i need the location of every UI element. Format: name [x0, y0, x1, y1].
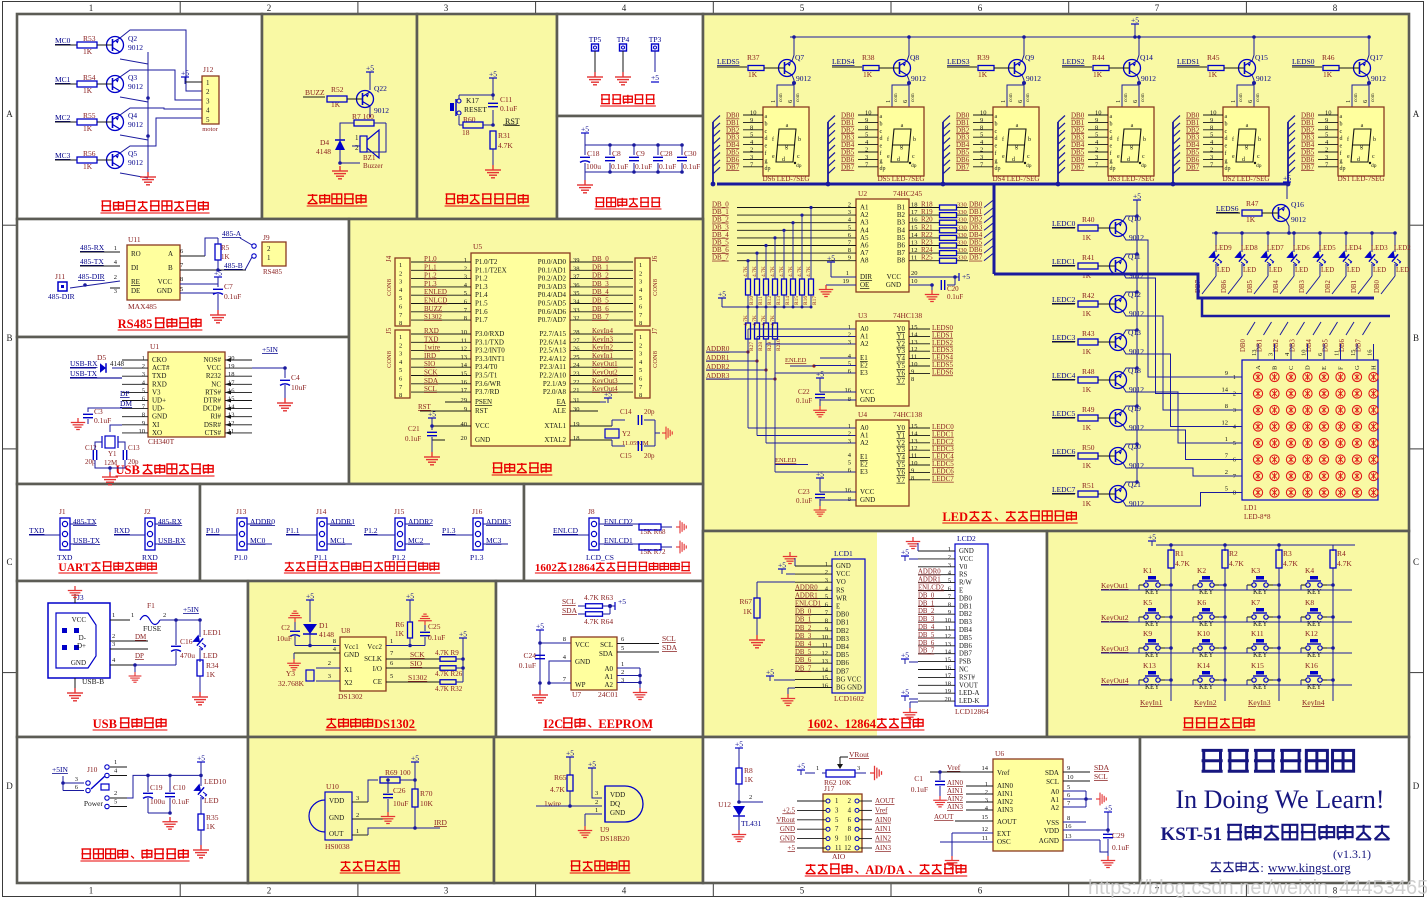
svg-text:9: 9 — [865, 117, 868, 124]
svg-text:20p: 20p — [644, 452, 655, 460]
svg-text:9: 9 — [464, 406, 467, 413]
svg-text:Vref: Vref — [875, 806, 888, 814]
svg-text:KEY: KEY — [1145, 620, 1159, 628]
svg-text:P1.0: P1.0 — [206, 526, 220, 535]
svg-text:R31: R31 — [498, 131, 511, 140]
svg-text:P1.1: P1.1 — [424, 263, 437, 271]
svg-text:DB2: DB2 — [959, 611, 972, 618]
svg-text:CTS#: CTS# — [205, 429, 222, 437]
svg-text:1K: 1K — [1082, 233, 1092, 242]
svg-text:USB: USB — [93, 717, 117, 731]
svg-text:KEY: KEY — [1199, 588, 1213, 596]
svg-text:S1302: S1302 — [408, 673, 427, 682]
svg-text:J13: J13 — [236, 507, 247, 516]
svg-text:3: 3 — [639, 351, 642, 358]
svg-text:R51: R51 — [1082, 481, 1095, 490]
svg-text:P1.0/T2: P1.0/T2 — [475, 258, 498, 266]
svg-text:LED9: LED9 — [1215, 245, 1232, 252]
svg-text:J11: J11 — [55, 272, 65, 281]
svg-text:1K: 1K — [1093, 70, 1103, 79]
svg-text:g: g — [995, 158, 998, 164]
svg-text:GND: GND — [575, 658, 590, 666]
svg-text:com: com — [911, 93, 916, 102]
svg-text:1: 1 — [770, 100, 777, 103]
svg-text:VRout: VRout — [849, 750, 870, 759]
svg-text:LEDS4: LEDS4 — [832, 57, 855, 66]
svg-text:b: b — [1373, 137, 1376, 143]
svg-text:com: com — [1026, 93, 1031, 102]
svg-text:DB1: DB1 — [1351, 280, 1358, 293]
svg-text:e: e — [887, 154, 890, 160]
svg-text:C9: C9 — [636, 149, 645, 158]
svg-text:AOUT: AOUT — [875, 797, 895, 805]
svg-text:DB_4: DB_4 — [795, 641, 812, 648]
svg-text:+5: +5 — [181, 69, 189, 78]
svg-text:+5: +5 — [816, 370, 824, 379]
svg-text:ADDR0: ADDR0 — [795, 584, 818, 591]
svg-text:P3.2/INT0: P3.2/INT0 — [475, 347, 505, 355]
svg-text:3: 3 — [328, 673, 331, 680]
svg-text:R42: R42 — [1082, 291, 1095, 300]
svg-text:R2: R2 — [1229, 549, 1238, 558]
svg-text:LED-K: LED-K — [959, 698, 979, 705]
svg-text:2: 2 — [1210, 147, 1213, 154]
svg-text:LEDS6: LEDS6 — [1216, 204, 1239, 213]
svg-text:4: 4 — [206, 107, 210, 115]
svg-text:2: 2 — [112, 633, 115, 640]
svg-text:TXD: TXD — [152, 372, 166, 380]
svg-text:CE: CE — [373, 678, 382, 686]
svg-text:3: 3 — [848, 209, 851, 216]
svg-text:LED10: LED10 — [204, 777, 226, 786]
svg-text:Q21: Q21 — [1128, 480, 1141, 489]
svg-text:b: b — [880, 121, 883, 127]
svg-text:com: com — [1239, 93, 1244, 102]
svg-text:10: 10 — [844, 836, 851, 843]
svg-text:3: 3 — [985, 797, 988, 804]
svg-text:DB_4: DB_4 — [918, 624, 935, 631]
svg-text:16: 16 — [845, 487, 852, 494]
svg-text:5: 5 — [848, 224, 851, 231]
svg-text:In Doing We Learn!: In Doing We Learn! — [1176, 785, 1385, 814]
svg-text:P1.0: P1.0 — [424, 255, 437, 263]
svg-text:3: 3 — [75, 776, 78, 783]
svg-text:KEY: KEY — [1307, 683, 1321, 691]
svg-text:DB_1: DB_1 — [795, 617, 811, 624]
svg-text:P0.5/AD5: P0.5/AD5 — [538, 300, 567, 308]
svg-text:DB4: DB4 — [1273, 280, 1280, 293]
svg-text:P1.3: P1.3 — [442, 526, 456, 535]
svg-text:J12: J12 — [203, 65, 214, 74]
svg-text:P2.6/A14: P2.6/A14 — [539, 338, 566, 346]
svg-text:R16: R16 — [803, 296, 809, 305]
svg-text:Q4: Q4 — [128, 111, 137, 120]
svg-text:c: c — [1142, 154, 1145, 160]
svg-text:36: 36 — [573, 282, 580, 289]
svg-text:4.7K: 4.7K — [498, 141, 513, 150]
svg-text:GND: GND — [860, 396, 875, 404]
svg-text:Q11: Q11 — [1128, 252, 1141, 261]
svg-text:SCK: SCK — [410, 650, 425, 659]
svg-text:DB7: DB7 — [726, 163, 740, 171]
svg-text:8: 8 — [142, 412, 145, 419]
svg-text:8: 8 — [825, 618, 828, 625]
svg-text:RS: RS — [959, 572, 968, 579]
svg-text:1: 1 — [1230, 100, 1237, 103]
svg-text:NOS#: NOS# — [203, 356, 221, 364]
svg-text:D: D — [1413, 781, 1420, 791]
svg-text:P1.1: P1.1 — [286, 526, 300, 535]
svg-text:IRD: IRD — [434, 818, 448, 827]
svg-text:DB_7: DB_7 — [592, 313, 609, 321]
svg-text:1K: 1K — [331, 100, 341, 109]
svg-text:P1.2: P1.2 — [424, 272, 437, 280]
svg-text:20p: 20p — [128, 458, 139, 466]
svg-text:3: 3 — [206, 97, 210, 105]
svg-text:DS2 LED-7SEG: DS2 LED-7SEG — [1223, 175, 1270, 183]
svg-text:R49: R49 — [1082, 405, 1095, 414]
svg-text:1: 1 — [464, 257, 467, 264]
svg-text:DS5 LED-7SEG: DS5 LED-7SEG — [878, 175, 925, 183]
svg-text:P1.6: P1.6 — [475, 308, 488, 316]
svg-text:24: 24 — [573, 362, 580, 369]
svg-text:P1.3: P1.3 — [470, 553, 484, 562]
svg-text:4.7K: 4.7K — [770, 266, 776, 277]
svg-text:DB0: DB0 — [1374, 280, 1381, 293]
svg-text:4.7K: 4.7K — [1175, 559, 1190, 568]
svg-text:J5: J5 — [385, 327, 393, 334]
svg-text:R27: R27 — [749, 342, 755, 351]
svg-text:J6: J6 — [651, 255, 659, 262]
svg-text:2: 2 — [848, 332, 851, 339]
svg-text:4.7K: 4.7K — [550, 785, 565, 794]
svg-text:DB5: DB5 — [1247, 280, 1254, 293]
svg-text:1: 1 — [1225, 436, 1228, 443]
svg-text:e: e — [1225, 144, 1228, 150]
svg-text:g: g — [1130, 144, 1133, 150]
svg-text:e: e — [1002, 154, 1005, 160]
svg-text:Q14: Q14 — [1140, 53, 1153, 62]
svg-text:H: H — [1371, 365, 1378, 370]
svg-text:d: d — [880, 136, 883, 142]
svg-text:9: 9 — [142, 420, 145, 427]
svg-text:d: d — [1110, 136, 1113, 142]
svg-text:J2: J2 — [144, 507, 151, 516]
svg-text:+5: +5 — [588, 760, 596, 769]
svg-text:U6: U6 — [995, 749, 1004, 758]
svg-text:LED: LED — [1321, 267, 1334, 274]
svg-text:K12: K12 — [1305, 629, 1318, 638]
svg-text:6: 6 — [978, 886, 983, 896]
svg-text:+5: +5 — [1104, 804, 1112, 813]
svg-text:37: 37 — [573, 274, 580, 281]
svg-text:LEDS5: LEDS5 — [717, 57, 740, 66]
svg-text:19: 19 — [945, 688, 952, 695]
svg-text:DB_2: DB_2 — [918, 608, 935, 615]
svg-text:5: 5 — [750, 132, 753, 139]
svg-text:9012: 9012 — [128, 120, 143, 129]
svg-text:U3: U3 — [858, 311, 867, 320]
svg-text:4.7K R64: 4.7K R64 — [584, 617, 613, 626]
svg-text:2: 2 — [825, 569, 828, 576]
svg-text:CKO: CKO — [152, 356, 167, 364]
svg-text:11: 11 — [1334, 350, 1341, 356]
svg-text:K3: K3 — [1251, 566, 1260, 575]
svg-text:RS485: RS485 — [118, 317, 153, 331]
svg-text:R25: R25 — [921, 254, 933, 262]
svg-text:KeyOut2: KeyOut2 — [1101, 613, 1129, 622]
svg-text:1: 1 — [89, 886, 94, 896]
svg-text:R13: R13 — [776, 296, 782, 305]
svg-text:+5: +5 — [214, 269, 222, 278]
svg-text:+5: +5 — [1283, 174, 1291, 183]
svg-text:DB3: DB3 — [959, 619, 972, 626]
svg-text:EEPROM: EEPROM — [598, 717, 653, 731]
svg-text:2: 2 — [267, 886, 272, 896]
svg-text:LEDS1: LEDS1 — [1177, 57, 1200, 66]
svg-text:C21: C21 — [408, 425, 420, 433]
svg-text:c: c — [1372, 154, 1375, 160]
svg-text:9012: 9012 — [128, 82, 143, 91]
svg-text:d: d — [897, 157, 900, 163]
svg-text:R52: R52 — [331, 85, 344, 94]
svg-text:KeyIn2: KeyIn2 — [1194, 698, 1217, 707]
svg-text:+5: +5 — [1148, 533, 1156, 542]
svg-text:AIN0: AIN0 — [947, 779, 963, 787]
svg-text:KEY: KEY — [1199, 683, 1213, 691]
svg-text:g: g — [900, 144, 903, 150]
svg-text:4.7K: 4.7K — [1283, 559, 1298, 568]
svg-text:+5: +5 — [604, 390, 612, 399]
svg-text:1K: 1K — [744, 775, 754, 784]
svg-text:VCC: VCC — [158, 278, 173, 286]
svg-text:485-TX: 485-TX — [73, 517, 97, 526]
svg-text:I/O: I/O — [373, 665, 382, 673]
svg-text:R48: R48 — [1082, 367, 1095, 376]
svg-text:12M: 12M — [104, 459, 118, 467]
svg-text:1: 1 — [114, 245, 117, 252]
svg-text:1602: 1602 — [808, 717, 833, 731]
svg-text:dp: dp — [1141, 163, 1147, 169]
svg-text:KEY: KEY — [1253, 683, 1267, 691]
svg-text:3: 3 — [595, 790, 598, 797]
svg-text:C10: C10 — [173, 783, 186, 792]
svg-text:+5IN: +5IN — [262, 345, 278, 354]
svg-text:9: 9 — [980, 117, 983, 124]
svg-text:2: 2 — [399, 270, 402, 277]
svg-text:www.kingst.org: www.kingst.org — [1268, 860, 1351, 875]
svg-text:DE: DE — [131, 287, 140, 295]
svg-text:3: 3 — [399, 351, 402, 358]
svg-text:NC: NC — [211, 380, 221, 388]
svg-text:C20: C20 — [947, 285, 959, 293]
svg-text:+5: +5 — [766, 668, 774, 677]
svg-text:5: 5 — [848, 460, 851, 467]
svg-text:5: 5 — [464, 290, 467, 297]
svg-text:7: 7 — [1155, 3, 1160, 13]
svg-text:R40: R40 — [1082, 215, 1095, 224]
svg-text:A8: A8 — [860, 257, 869, 265]
svg-text:E3: E3 — [860, 468, 868, 476]
svg-text:DB_6: DB_6 — [592, 305, 609, 313]
svg-text:DSR#: DSR# — [204, 421, 222, 429]
svg-text:C18: C18 — [587, 149, 600, 158]
svg-text:C: C — [1413, 557, 1419, 567]
svg-text:LED: LED — [1295, 267, 1308, 274]
svg-text:485-RX: 485-RX — [80, 243, 105, 252]
svg-text:LD1: LD1 — [1244, 504, 1257, 512]
svg-text:g: g — [880, 158, 883, 164]
svg-text:KeyOut1: KeyOut1 — [592, 360, 618, 368]
svg-text:GND: GND — [71, 659, 86, 667]
svg-text:9: 9 — [1067, 765, 1070, 772]
svg-text:R8: R8 — [744, 766, 753, 775]
svg-text:P0.4/AD4: P0.4/AD4 — [538, 291, 567, 299]
svg-text:+5: +5 — [581, 125, 589, 134]
svg-text:8: 8 — [464, 315, 467, 322]
svg-text:10: 10 — [1301, 350, 1308, 357]
svg-text:5: 5 — [639, 367, 642, 374]
svg-text:DB0: DB0 — [959, 595, 972, 602]
svg-text:C: C — [1288, 366, 1295, 370]
svg-text:3: 3 — [857, 765, 860, 772]
svg-text:20: 20 — [461, 435, 468, 442]
svg-text:+5: +5 — [735, 740, 743, 749]
svg-text:485-B: 485-B — [224, 261, 243, 270]
svg-text:TXD: TXD — [57, 553, 73, 562]
svg-text:DB0: DB0 — [836, 612, 849, 619]
svg-text:AIO: AIO — [832, 852, 846, 861]
svg-text:14: 14 — [1222, 387, 1229, 394]
svg-text:1K: 1K — [1082, 461, 1092, 470]
svg-text:ACT#: ACT# — [152, 364, 170, 372]
svg-text:PSEN: PSEN — [475, 398, 492, 406]
svg-text:DS1302: DS1302 — [374, 717, 415, 731]
svg-text:3: 3 — [444, 886, 449, 896]
svg-text:8: 8 — [333, 638, 336, 645]
svg-text:3: 3 — [112, 641, 115, 648]
svg-text:SDA: SDA — [662, 643, 678, 652]
svg-text:5: 5 — [800, 886, 805, 896]
svg-text:3: 3 — [980, 154, 983, 161]
svg-text:P2.2/A10: P2.2/A10 — [539, 372, 566, 380]
svg-text:E3: E3 — [860, 369, 868, 377]
svg-text:0.1uF: 0.1uF — [428, 633, 445, 642]
svg-text::: : — [1260, 860, 1264, 875]
svg-text:Q19: Q19 — [1128, 404, 1141, 413]
svg-text:A2: A2 — [860, 340, 869, 348]
svg-text:34: 34 — [573, 299, 580, 306]
svg-text:EA: EA — [557, 398, 566, 406]
svg-text:485-RX: 485-RX — [158, 517, 183, 526]
svg-text:g: g — [1015, 144, 1018, 150]
svg-text:3: 3 — [444, 3, 449, 13]
svg-text:2: 2 — [621, 669, 624, 676]
svg-text:KEY: KEY — [1253, 651, 1267, 659]
svg-text:15: 15 — [911, 423, 918, 430]
svg-text:Q8: Q8 — [910, 53, 919, 62]
svg-text:5: 5 — [800, 3, 805, 13]
svg-text:24C01: 24C01 — [598, 690, 618, 699]
svg-text:SCK: SCK — [424, 369, 438, 377]
svg-text:9: 9 — [825, 626, 828, 633]
svg-text:3: 3 — [948, 562, 951, 569]
svg-text:1: 1 — [595, 807, 598, 814]
svg-text:RST: RST — [475, 407, 489, 415]
svg-text:DTR#: DTR# — [204, 397, 222, 405]
svg-text:+5: +5 — [901, 688, 909, 697]
svg-text:R12: R12 — [767, 296, 773, 305]
svg-text:5: 5 — [621, 645, 624, 652]
svg-text:10: 10 — [750, 110, 757, 117]
svg-text:Y2: Y2 — [622, 430, 631, 438]
svg-text:e: e — [880, 144, 883, 150]
svg-text:9012: 9012 — [1129, 499, 1144, 508]
svg-text:Q16: Q16 — [1291, 200, 1304, 209]
svg-text:10uF: 10uF — [291, 383, 306, 392]
svg-text:LEDS2: LEDS2 — [1062, 57, 1085, 66]
svg-text:9: 9 — [911, 368, 914, 375]
svg-text:10: 10 — [1210, 110, 1217, 117]
svg-text:I2C: I2C — [543, 717, 563, 731]
svg-text:C22: C22 — [798, 388, 810, 396]
svg-text:TP3: TP3 — [649, 35, 662, 44]
svg-text:LEDC3: LEDC3 — [1052, 333, 1076, 342]
svg-text:DP: DP — [135, 652, 144, 660]
svg-text:12: 12 — [911, 346, 918, 353]
svg-text:c: c — [912, 154, 915, 160]
svg-text:+5IN: +5IN — [52, 765, 68, 774]
svg-text:9012: 9012 — [1291, 215, 1306, 224]
svg-text:DB0: DB0 — [1240, 339, 1247, 352]
svg-text:23: 23 — [573, 371, 580, 378]
svg-text:74HC138: 74HC138 — [893, 311, 922, 320]
svg-text:AD/DA: AD/DA — [865, 863, 905, 877]
svg-text:9: 9 — [948, 609, 951, 616]
svg-text:LCD12864: LCD12864 — [955, 707, 989, 716]
svg-text:12: 12 — [982, 826, 989, 833]
svg-text:4: 4 — [622, 886, 627, 896]
svg-text:10: 10 — [911, 361, 918, 368]
svg-text:485-DIR: 485-DIR — [48, 292, 75, 301]
svg-text:+5: +5 — [566, 749, 574, 758]
svg-text:BUZZ: BUZZ — [424, 305, 442, 313]
svg-text:9: 9 — [1325, 117, 1328, 124]
svg-text:CON8: CON8 — [386, 279, 393, 296]
svg-text:DB7: DB7 — [956, 163, 970, 171]
svg-text:R60: R60 — [463, 115, 476, 124]
svg-text:DB_1: DB_1 — [918, 600, 934, 607]
svg-text:485-TX: 485-TX — [80, 257, 104, 266]
svg-text:1: 1 — [114, 759, 117, 766]
svg-text:d: d — [1225, 136, 1228, 142]
svg-text:GND: GND — [329, 814, 344, 822]
svg-text:12864: 12864 — [568, 562, 596, 574]
svg-text:GND: GND — [780, 835, 795, 843]
svg-text:c: c — [765, 129, 768, 135]
svg-text:35: 35 — [573, 290, 580, 297]
svg-text:10K: 10K — [420, 799, 434, 808]
svg-text:470u: 470u — [180, 651, 195, 660]
svg-text:11: 11 — [945, 625, 951, 632]
svg-text:LCD1: LCD1 — [834, 549, 853, 558]
svg-text:2: 2 — [980, 147, 983, 154]
svg-text:4.7K R32: 4.7K R32 — [435, 685, 463, 693]
svg-text:R34: R34 — [206, 661, 219, 670]
svg-text:A1: A1 — [604, 673, 613, 681]
svg-text:LED: LED — [1373, 267, 1386, 274]
svg-text:R46: R46 — [1322, 53, 1335, 62]
